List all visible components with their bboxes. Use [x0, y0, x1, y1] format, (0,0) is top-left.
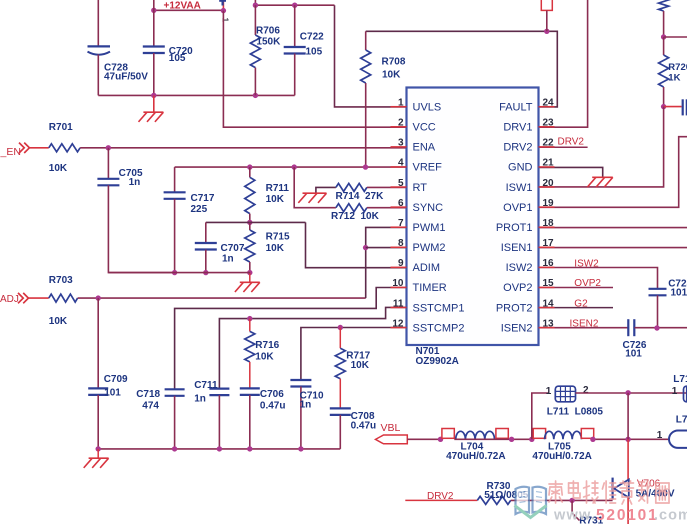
- wire R731 drop: [572, 500, 579, 520]
- connector pin number 1 (rotated): [221, 18, 231, 23]
- svg-text:SSTCMP2: SSTCMP2: [413, 322, 465, 334]
- net label G2: [574, 298, 588, 309]
- junction fuse bottom: [544, 29, 549, 34]
- svg-text:DRV2: DRV2: [558, 137, 585, 148]
- svg-text:13: 13: [543, 318, 555, 329]
- capacitor C717 wire top: [174, 167, 176, 192]
- label L704: [461, 442, 484, 453]
- wire +12VAA rail y=10.3: [154, 9, 224, 11]
- IC pin numbers and names: [392, 98, 554, 335]
- junction L705 pin2: [590, 437, 595, 442]
- watermark text 家电维修资料网 (stylized): [549, 481, 669, 504]
- label C728: [104, 62, 128, 73]
- watermark url www.520101.com: [553, 507, 687, 524]
- wire UVLS rail y=5.2: [255, 4, 334, 6]
- label C705: [119, 168, 143, 179]
- svg-text:DRV1: DRV1: [503, 122, 532, 134]
- svg-text:C711: C711: [194, 380, 218, 391]
- capacitor C710: [290, 380, 311, 387]
- value 47uF/50V: [104, 72, 148, 83]
- svg-text:ADIM: ADIM: [413, 262, 441, 274]
- wire ADIM from node rail: [306, 222, 407, 267]
- value 470uH/0.72A: [446, 451, 505, 462]
- svg-text:10K: 10K: [351, 360, 370, 371]
- label R703: [49, 275, 73, 286]
- value 101: [671, 288, 687, 299]
- svg-text:10K: 10K: [382, 70, 401, 81]
- wire ground stub: [153, 95, 155, 112]
- value 51&#937;/0805: [484, 490, 529, 501]
- net label ADJ: [0, 294, 19, 305]
- capacitor C728 wire bottom: [97, 55, 99, 96]
- connector pin stub (off-sheet, top): [219, 0, 226, 11]
- wire node rail y=272.6: [108, 272, 250, 274]
- wire PWM riser: [366, 227, 407, 298]
- svg-text:SYNC: SYNC: [413, 202, 444, 214]
- svg-text:17: 17: [543, 238, 555, 249]
- resistor R717: [335, 328, 345, 409]
- svg-text:1K: 1K: [668, 72, 680, 83]
- wire L705 to L706: [594, 438, 668, 440]
- svg-text:21: 21: [543, 158, 555, 169]
- wire node drop: [627, 393, 629, 440]
- pin label 1 (L711): [546, 386, 552, 397]
- svg-text:ISW2: ISW2: [506, 262, 533, 274]
- value 10K: [49, 316, 68, 327]
- capacitor C722: [284, 47, 306, 54]
- wire VCC from +12VAA: [223, 11, 406, 128]
- capacitor C728 wire top: [97, 0, 99, 46]
- junction C711 bottom: [217, 446, 222, 451]
- junction C718 bottom: [172, 446, 177, 451]
- label OZ9902A: [416, 356, 459, 367]
- svg-text:10K: 10K: [266, 194, 285, 205]
- inductor L711 (ferrite bead): [555, 386, 575, 402]
- junction C706 bottom: [247, 446, 252, 451]
- svg-text:14: 14: [543, 298, 555, 309]
- svg-text:22: 22: [543, 138, 555, 149]
- label C723: [668, 279, 687, 290]
- value 1n: [194, 393, 206, 404]
- svg-text:C722: C722: [300, 32, 324, 43]
- junction R708 bottom: [363, 164, 368, 169]
- wire ISW2: [539, 268, 658, 289]
- net label DRV2: [427, 491, 454, 502]
- label C708: [351, 411, 375, 422]
- wire UVLS vertical+to pin1: [335, 5, 407, 107]
- svg-text:ISEN2: ISEN2: [501, 322, 533, 334]
- svg-text:6: 6: [398, 198, 404, 209]
- junction R712 branch: [292, 164, 297, 169]
- svg-text:R712 10K: R712 10K: [331, 211, 380, 222]
- wire ISEN1 pin 17: [539, 247, 687, 249]
- svg-text:0.47u: 0.47u: [351, 421, 377, 432]
- resistor R714: [336, 183, 407, 191]
- svg-text:8: 8: [398, 238, 404, 249]
- svg-text:474: 474: [142, 401, 159, 412]
- net label VBL: [381, 422, 401, 434]
- svg-text:16: 16: [543, 258, 555, 269]
- capacitor C726: [628, 319, 634, 336]
- svg-text:L711 L0805: L711 L0805: [547, 407, 604, 418]
- svg-text:10K: 10K: [49, 163, 68, 174]
- wire DRV2 net: [405, 499, 477, 501]
- resistor R715: [245, 222, 255, 272]
- svg-text:101: 101: [671, 288, 687, 299]
- wire ground stub R715: [249, 273, 251, 283]
- svg-text:C717: C717: [191, 193, 215, 204]
- svg-text:470uH/0.72A: 470uH/0.72A: [446, 451, 505, 462]
- svg-text:19: 19: [543, 198, 555, 209]
- svg-text:12: 12: [392, 318, 404, 329]
- junction L704 pin2: [509, 437, 514, 442]
- value 1n: [129, 177, 141, 188]
- resistor R719 (partial, top edge): [659, 0, 669, 37]
- capacitor C709 wire bottom: [97, 395, 99, 449]
- svg-text:105: 105: [306, 47, 323, 58]
- svg-text:VCC: VCC: [413, 122, 436, 134]
- junction at +12VAA corner: [221, 8, 226, 13]
- label R716: [255, 340, 279, 351]
- label L705: [548, 442, 571, 453]
- wire ground rail y=448.9: [98, 448, 340, 450]
- net label ISEN2: [570, 318, 599, 329]
- net label ISW2: [574, 258, 599, 269]
- svg-text:G2: G2: [574, 298, 588, 309]
- label V706: [637, 479, 661, 490]
- svg-text:R701: R701: [49, 122, 73, 133]
- svg-text:10: 10: [392, 278, 404, 289]
- svg-text:9: 9: [398, 258, 404, 269]
- svg-text:FAULT: FAULT: [499, 102, 533, 114]
- junction C709 bottom: [96, 446, 101, 451]
- label R706: [256, 26, 280, 37]
- pad L705 pin2 (red box): [581, 429, 593, 439]
- label C707: [221, 243, 245, 254]
- capacitor C717: [164, 192, 186, 199]
- svg-text:_EN: _EN: [0, 146, 21, 158]
- resistor R720: [659, 37, 669, 107]
- value 474: [142, 401, 159, 412]
- label L711 L0805: [547, 407, 604, 418]
- junction ISEN2/C723: [654, 325, 659, 330]
- ground symbol (under C720): [139, 112, 164, 122]
- capacitor C707 wire bottom: [205, 250, 207, 273]
- svg-text:0.47u: 0.47u: [260, 400, 286, 411]
- wire output to V706: [627, 439, 629, 480]
- label C726: [623, 340, 647, 351]
- svg-text:ENA: ENA: [413, 142, 436, 154]
- capacitor C722 wire top: [294, 5, 296, 47]
- svg-text:www.: www.: [553, 508, 596, 524]
- svg-text:150K: 150K: [256, 36, 281, 47]
- capacitor C720 wire top: [153, 0, 155, 47]
- wire L711 branch: [532, 393, 550, 439]
- junction at C720 top: [151, 8, 156, 13]
- watermark logo (open book): [515, 487, 547, 518]
- capacitor C709: [88, 388, 108, 395]
- capacitor C707: [195, 243, 217, 250]
- capacitor C710 wire bottom: [300, 387, 302, 449]
- svg-text:11: 11: [393, 298, 404, 309]
- svg-text:L712: L712: [673, 374, 687, 385]
- svg-text:R714 27K: R714 27K: [336, 191, 385, 202]
- svg-text:101: 101: [104, 388, 121, 399]
- svg-text:OZ9902A: OZ9902A: [416, 356, 459, 367]
- ground symbol (RT filter): [298, 193, 326, 203]
- capacitor C723: [649, 289, 667, 296]
- net label +12VAA: [164, 1, 201, 12]
- svg-text:ISEN2: ISEN2: [570, 318, 599, 329]
- svg-text:OVP2: OVP2: [574, 278, 601, 289]
- wire UVLS from top edge: [254, 0, 256, 5]
- fuse/jumper (red box, top edge): [541, 0, 552, 31]
- label C717: [191, 193, 215, 204]
- label C710: [300, 390, 324, 401]
- wire L711 to node: [576, 392, 687, 394]
- resistor R712: [336, 204, 407, 212]
- op-amp U1 IC N701 OZ9902A box: [407, 88, 539, 346]
- svg-text:2: 2: [583, 385, 589, 396]
- svg-text:1: 1: [657, 430, 663, 441]
- svg-text:15: 15: [543, 278, 555, 289]
- label R731: [579, 515, 603, 524]
- svg-text:4: 4: [398, 158, 404, 169]
- value 10K: [49, 163, 68, 174]
- capacitor C705 wire top: [107, 148, 109, 179]
- port chevrons ADJ: [18, 293, 28, 303]
- inductor L704: [456, 431, 495, 439]
- svg-text:ISEN1: ISEN1: [501, 242, 533, 254]
- value 10K: [382, 70, 401, 81]
- ground rail y=95.4: [98, 94, 294, 96]
- junction R706 top: [253, 2, 258, 7]
- port arrow VBL: [376, 435, 408, 444]
- resistor R730: [477, 496, 510, 504]
- diode V706: [613, 478, 629, 500]
- resistor R706: [250, 5, 260, 95]
- label R715: [266, 232, 290, 243]
- svg-text:C709: C709: [104, 374, 128, 385]
- value 101: [625, 349, 642, 360]
- svg-text:2: 2: [398, 118, 404, 129]
- capacitor C709 wire: [97, 298, 99, 388]
- resistor R708: [361, 31, 371, 167]
- pin label 1 (L712): [672, 386, 678, 397]
- junction R731 tap: [569, 498, 574, 503]
- label N701: [416, 346, 440, 357]
- junction R706 bottom: [253, 93, 258, 98]
- junction R711 bottom: [247, 220, 252, 225]
- junction C705 top: [106, 145, 111, 150]
- wire ADJ to PWM: [78, 297, 366, 299]
- svg-text:SSTCMP1: SSTCMP1: [413, 302, 465, 314]
- junction L704 pin1: [438, 437, 443, 442]
- net label _EN: [0, 146, 21, 158]
- wire ISEN2 to C726: [539, 327, 629, 329]
- junction R720 bottom: [661, 104, 666, 109]
- junction C710 bottom: [298, 446, 303, 451]
- svg-text:ADJ: ADJ: [0, 294, 19, 305]
- capacitor C705 wire bottom: [108, 185, 174, 272]
- svg-text:PWM2: PWM2: [413, 242, 446, 254]
- label C706: [260, 389, 284, 400]
- svg-text:R716: R716: [255, 340, 279, 351]
- value 150K: [256, 36, 281, 47]
- ground symbol (GND pin): [587, 177, 612, 187]
- capacitor C711: [209, 389, 229, 396]
- wire FAULT rail y=31.3: [366, 31, 558, 107]
- label L712 (clipped): [673, 374, 687, 385]
- wire C726 right: [635, 327, 687, 329]
- inductor L712 (partial, right edge): [684, 386, 687, 402]
- svg-text:18: 18: [543, 218, 555, 229]
- label R712 10K: [331, 211, 380, 222]
- label R717: [346, 350, 370, 361]
- capacitor C722 wire bottom: [294, 54, 296, 96]
- svg-text:3: 3: [398, 138, 404, 149]
- junction L711 output: [625, 390, 630, 395]
- ground symbol (under R715): [235, 282, 260, 292]
- junction output node: [625, 437, 630, 442]
- svg-text:24: 24: [543, 98, 555, 109]
- svg-text:101: 101: [625, 349, 642, 360]
- svg-text:1: 1: [221, 18, 231, 23]
- junction C707 bottom: [203, 270, 208, 275]
- label R711: [266, 183, 290, 194]
- wire DRV2 stub: [539, 146, 588, 148]
- svg-text:R706: R706: [256, 26, 280, 37]
- junction C717 bottom: [172, 270, 177, 275]
- pad L704 pin1 (red box): [442, 429, 454, 439]
- wire DRV1 up off-sheet: [539, 0, 588, 127]
- svg-text:1n: 1n: [129, 177, 141, 188]
- wire PWM2 stub: [366, 247, 407, 249]
- resistor R703: [49, 294, 78, 302]
- wire to right edge y=37: [664, 36, 687, 38]
- svg-text:1n: 1n: [300, 400, 312, 411]
- svg-text:OVP2: OVP2: [503, 282, 532, 294]
- label C711: [194, 380, 218, 391]
- wire ADJ to R703: [28, 297, 48, 299]
- value 10K: [266, 194, 285, 205]
- capacitor C708 wire bottom: [339, 415, 341, 449]
- junction C709 top: [96, 295, 101, 300]
- wire GND pin 21: [539, 167, 603, 177]
- wire G2 stub: [539, 307, 614, 309]
- svg-text:PWM1: PWM1: [413, 222, 446, 234]
- value 0.47u: [260, 400, 286, 411]
- svg-text:R715: R715: [266, 232, 290, 243]
- label R730: [487, 481, 511, 492]
- svg-text:ISW2: ISW2: [574, 258, 599, 269]
- value 10K: [255, 351, 274, 362]
- wire L704-L705: [454, 438, 533, 440]
- junction R720 top: [661, 34, 666, 39]
- svg-text:R703: R703: [49, 275, 73, 286]
- value 105: [306, 47, 323, 58]
- wire PROT1 pin 18: [539, 227, 687, 229]
- junction PWM2: [363, 245, 368, 250]
- value 10K: [266, 243, 285, 254]
- ground symbol (bottom rail): [84, 458, 109, 468]
- value 105: [169, 53, 186, 64]
- value 10K: [351, 360, 370, 371]
- capacitor C718 wire bottom: [174, 396, 176, 449]
- wire R712 branch: [294, 167, 336, 208]
- svg-text:470uH/0.72A: 470uH/0.72A: [532, 451, 591, 462]
- svg-text:23: 23: [543, 118, 555, 129]
- svg-text:OVP1: OVP1: [503, 202, 532, 214]
- wire OVP1 to right edge: [539, 137, 687, 208]
- capacitor C728: [88, 46, 111, 54]
- svg-text:7: 7: [398, 218, 404, 229]
- pin label 2 (L711): [583, 385, 589, 396]
- wire ground stub bottom: [97, 449, 99, 458]
- svg-text:C706: C706: [260, 389, 284, 400]
- pin label 1 (L706): [657, 430, 663, 441]
- capacitor C720 wire bottom: [153, 53, 155, 95]
- wire node rail y=222.4: [206, 221, 306, 223]
- capacitor C708: [330, 408, 351, 415]
- wire VBL to L704: [407, 438, 442, 440]
- svg-text:R711: R711: [266, 183, 290, 194]
- svg-text:105: 105: [169, 53, 186, 64]
- value 5A/400V: [636, 488, 675, 499]
- port chevrons _EN: [19, 143, 29, 153]
- svg-text:1: 1: [672, 386, 678, 397]
- wire to capacitor C721: [664, 106, 682, 108]
- svg-text:10K: 10K: [266, 243, 285, 254]
- capacitor C706 wire bottom: [249, 395, 251, 449]
- capacitor C721 (partial, right edge): [683, 99, 687, 115]
- svg-text:10K: 10K: [255, 351, 274, 362]
- svg-text:1: 1: [546, 386, 552, 397]
- svg-text:.com: .com: [654, 508, 687, 524]
- wire R714 left + ground drop: [316, 187, 336, 193]
- inductor L705: [545, 431, 582, 439]
- wire VREF rail y=167.1: [175, 166, 407, 168]
- wire ISW1 net: [539, 107, 664, 187]
- svg-text:1: 1: [398, 98, 404, 109]
- capacitor C720: [143, 47, 165, 54]
- junction C720 bottom: [151, 93, 156, 98]
- svg-text:C718: C718: [136, 389, 160, 400]
- value 0.47u: [351, 421, 377, 432]
- value 1n: [222, 254, 234, 265]
- capacitor C717 wire bottom: [174, 199, 176, 273]
- svg-text:DRV2: DRV2: [427, 491, 454, 502]
- svg-text:VREF: VREF: [413, 162, 443, 174]
- svg-text:10K: 10K: [49, 316, 68, 327]
- value 101: [104, 388, 121, 399]
- wire V706 bottom: [627, 498, 629, 524]
- value 1K: [668, 72, 680, 83]
- wire EN to pin3 ENA: [80, 147, 406, 149]
- wire _EN to R701: [29, 147, 48, 149]
- net label DRV2: [558, 137, 585, 148]
- capacitor C705: [97, 179, 119, 186]
- capacitor C711 wire bottom: [218, 395, 220, 449]
- capacitor C706: [240, 388, 260, 395]
- capacitor C718: [165, 389, 185, 396]
- value 470uH/0.72A: [532, 451, 591, 462]
- resistor R711: [245, 167, 255, 222]
- svg-text:5: 5: [398, 178, 404, 189]
- svg-text:C707: C707: [221, 243, 245, 254]
- wire SSTCMP1: [219, 307, 406, 388]
- svg-text:PROT2: PROT2: [496, 302, 533, 314]
